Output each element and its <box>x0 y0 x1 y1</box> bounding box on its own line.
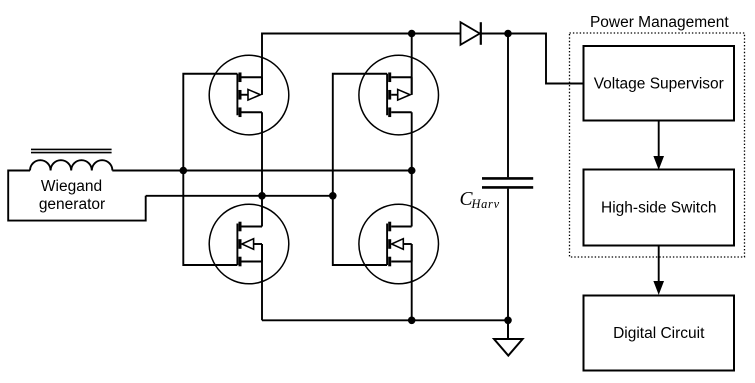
junction bottom rail / ground <box>504 317 512 325</box>
transistor M2 (top-right) <box>359 55 439 135</box>
wire M2 source to rail1 and M4 drain <box>411 112 413 226</box>
wire M2 drain to top rail <box>411 34 413 95</box>
transistor M1 (top-left) <box>209 55 289 135</box>
ground <box>494 320 523 355</box>
wire rail2 (AC node 2) <box>146 195 333 197</box>
svg-text:Power Management: Power Management <box>590 14 729 31</box>
capacitor C_Harv <box>482 34 533 321</box>
wire top rail left segment (M1 drain to diode anode) <box>262 34 461 95</box>
wire M4 source to bottom rail <box>411 244 413 320</box>
svg-text:High-side Switch: High-side Switch <box>601 200 716 217</box>
junction top rail / C_Harv <box>504 30 512 38</box>
Wiegand generator box <box>8 171 146 221</box>
wire M3 source to bottom rail <box>261 244 263 320</box>
wire top rail right segment (diode cathode to Voltage Supervisor) <box>481 34 584 84</box>
wire rail1 (AC node 1) <box>112 170 411 172</box>
block Digital Circuit <box>584 296 735 371</box>
arrow Voltage Supervisor to High-side Switch <box>654 121 663 169</box>
inductor core lines <box>31 149 112 152</box>
wire left gate net (rail1 to M1 and M3 gates) <box>183 74 237 265</box>
junction rail1 / left gate net <box>180 167 188 175</box>
junction rail2 / right gate net <box>329 192 337 200</box>
arrow High-side Switch to Digital Circuit <box>654 246 663 294</box>
svg-text:CHarv: CHarv <box>460 189 500 211</box>
transistor M4 (bottom-right) <box>359 204 439 284</box>
junction bottom rail / M4 source <box>408 317 416 325</box>
svg-text:Wiegand: Wiegand <box>41 178 102 195</box>
svg-text:Digital Circuit: Digital Circuit <box>613 325 705 342</box>
junction rail2 / M1 source <box>258 192 266 200</box>
wire bottom rail (ground node) <box>262 319 508 321</box>
diode D1 <box>461 22 481 45</box>
wire right gate net (rail2 to M2 and M4 gates) <box>333 74 387 265</box>
label Wiegand generator <box>39 178 105 213</box>
junction rail1 / M2 source <box>408 167 416 175</box>
svg-text:generator: generator <box>39 196 105 213</box>
inductor L1 coil <box>30 160 112 170</box>
junction top rail / M2 drain <box>408 30 416 38</box>
block Voltage Supervisor <box>584 46 735 121</box>
wire M1 source to rail2 and M3 drain <box>261 112 263 226</box>
svg-text:Voltage Supervisor: Voltage Supervisor <box>594 75 724 92</box>
dashed box Power Management <box>570 33 745 257</box>
transistor M3 (bottom-left) <box>209 204 289 284</box>
block High-side Switch <box>584 170 735 246</box>
